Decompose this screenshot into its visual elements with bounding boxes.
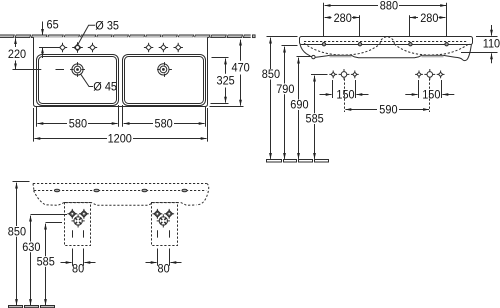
tap cluster right diamond a — [415, 71, 423, 79]
tap hole diamond plan left-1 — [58, 43, 67, 52]
hidden rim inner edge dashed — [304, 41, 468, 43]
basin outer outline — [34, 37, 208, 106]
svg-text:150: 150 — [422, 89, 440, 101]
tap hole diamond plan right-3 — [174, 43, 183, 52]
trap left bolt diamond a — [67, 209, 77, 219]
svg-text:850: 850 — [8, 226, 26, 238]
dimension 580 right — [122, 105, 124, 127]
dimension 850 rear — [13, 181, 30, 183]
trap box right dashed — [152, 203, 178, 246]
floor bar rear view — [9, 306, 23, 308]
underside gray boss right — [422, 56, 444, 58]
svg-text:110: 110 — [483, 38, 500, 50]
drain right bowl — [157, 62, 172, 77]
dimension 150 right — [418, 80, 420, 98]
tap hole diamond plan right-1 — [144, 43, 153, 52]
trap left inner pipe lines — [72, 230, 74, 237]
dimension 110 — [476, 36, 498, 38]
tap cluster right center hole — [424, 69, 435, 80]
hidden center divider dome dashed — [380, 37, 394, 44]
wall bar stub — [253, 35, 256, 38]
trap right bolt diamond b — [164, 209, 174, 219]
underside profile left curve — [300, 44, 310, 56]
dimension 1200 — [33, 108, 35, 142]
tap hole diamond plan right-2 — [159, 43, 168, 52]
right bowl outer — [123, 55, 206, 106]
dimension 690 front — [297, 56, 313, 58]
svg-text:585: 585 — [306, 113, 324, 125]
dimension 280 right — [409, 15, 411, 36]
tap hole diamond plan left-3 — [88, 43, 97, 52]
underside trap circle left — [312, 55, 315, 58]
trap right bolt diamond a — [153, 209, 163, 219]
trap left bolt diamond b — [79, 209, 89, 219]
tap cluster left diamond a — [329, 71, 337, 79]
wall bar clip right edge — [251, 33, 263, 40]
svg-text:790: 790 — [276, 84, 294, 96]
centerline left cluster dashed — [344, 79, 346, 113]
svg-text:585: 585 — [37, 256, 55, 268]
fixing hole circles on rim — [322, 43, 325, 46]
svg-text:630: 630 — [22, 242, 40, 254]
svg-text:280: 280 — [334, 13, 352, 25]
dimension 470 — [210, 106, 244, 108]
tap cluster right diamond b — [437, 71, 445, 79]
underside profile middle — [315, 55, 455, 57]
hidden bowl arc right dashed — [394, 43, 469, 55]
rear outline top dashed — [33, 183, 207, 185]
left bowl inner — [39, 57, 117, 104]
svg-text:280: 280 — [420, 13, 438, 25]
dimension 325 — [212, 57, 229, 59]
svg-text:Ø 45: Ø 45 — [93, 81, 117, 93]
rear rim bottom line dashed — [34, 190, 206, 192]
leader label diameter 45 — [81, 74, 93, 86]
floor bar front view — [267, 160, 282, 163]
dimension 280 left — [359, 15, 361, 36]
dimension 585 front — [311, 74, 328, 76]
dimension 580 left — [36, 107, 38, 127]
svg-text:1200: 1200 — [108, 133, 132, 145]
svg-text:220: 220 — [8, 49, 26, 61]
tap cluster left center hole — [339, 69, 350, 80]
dimension 590 — [345, 109, 377, 111]
underside gray boss left — [330, 56, 352, 58]
drain left bowl — [70, 62, 85, 77]
svg-text:590: 590 — [379, 104, 397, 116]
rear outline right edge dashed — [196, 184, 208, 205]
wall section bar — [0, 35, 259, 38]
svg-text:80: 80 — [158, 263, 170, 275]
right bowl inner — [125, 57, 204, 104]
dimension 150 left — [332, 80, 334, 98]
trap box left dashed — [65, 203, 91, 246]
trap right drain spoke circle — [157, 214, 170, 227]
dimension 850 front — [267, 36, 298, 38]
tap hole diamond plan left-2 (35mm) — [72, 42, 83, 53]
centerline right cluster dashed — [429, 79, 431, 113]
tap cluster left diamond b — [351, 71, 359, 79]
svg-text:580: 580 — [69, 118, 87, 130]
dimension 80 right — [157, 249, 159, 266]
svg-text:580: 580 — [155, 118, 173, 130]
svg-text:Ø 35: Ø 35 — [95, 20, 119, 32]
dimension 630 rear — [31, 214, 68, 216]
left bowl outer — [37, 55, 119, 106]
svg-text:880: 880 — [380, 0, 398, 12]
dimension 880 — [323, 3, 325, 36]
trap right inner pipe lines — [157, 230, 159, 237]
dimension 585 rear — [46, 222, 63, 224]
svg-text:470: 470 — [232, 62, 250, 74]
underside hook right — [455, 44, 471, 60]
dimension 220 — [15, 38, 17, 47]
leader label diameter 35 — [78, 25, 95, 44]
dimension 80 left — [72, 249, 74, 266]
dimension 790 front — [282, 45, 298, 47]
dimension 65 — [42, 22, 44, 35]
svg-text:150: 150 — [336, 89, 354, 101]
svg-text:65: 65 — [47, 19, 59, 31]
svg-text:80: 80 — [72, 263, 84, 275]
rear fixing hole ovals — [55, 189, 60, 191]
hidden bowl arc left dashed — [304, 43, 380, 55]
rear outline left edge dashed — [33, 184, 34, 191]
svg-text:850: 850 — [262, 69, 280, 81]
rear underside silhouette dashed — [34, 191, 197, 206]
rim band — [300, 37, 473, 45]
trap left drain spoke circle — [72, 214, 85, 227]
svg-text:690: 690 — [290, 99, 308, 111]
svg-text:325: 325 — [217, 75, 235, 87]
